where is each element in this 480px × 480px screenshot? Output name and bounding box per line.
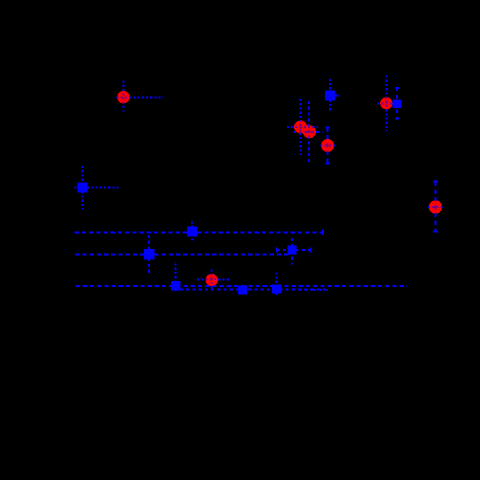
data point S1 blue square — [78, 183, 88, 193]
data point S6 blue square — [238, 285, 247, 294]
data point C2 red circle — [294, 121, 307, 134]
faint bar overlay crossing markers — [75, 76, 443, 296]
data point C5 red circle — [380, 97, 392, 109]
data point S5 blue square — [171, 281, 181, 291]
data point S4 blue square — [144, 249, 155, 260]
data point C6 red circle — [206, 274, 218, 286]
data point S9 blue square — [287, 246, 296, 255]
data point C4 red circle — [321, 139, 334, 152]
data point S7 blue square — [272, 284, 281, 293]
data point S8 blue square — [393, 100, 402, 109]
data point C1 red circle — [117, 91, 129, 103]
data point S3 blue square — [187, 227, 197, 237]
data point C3 red circle — [303, 125, 316, 138]
error bars layer — [75, 76, 443, 296]
data point S2 blue square — [325, 90, 335, 100]
data point C7 red circle — [429, 200, 442, 213]
